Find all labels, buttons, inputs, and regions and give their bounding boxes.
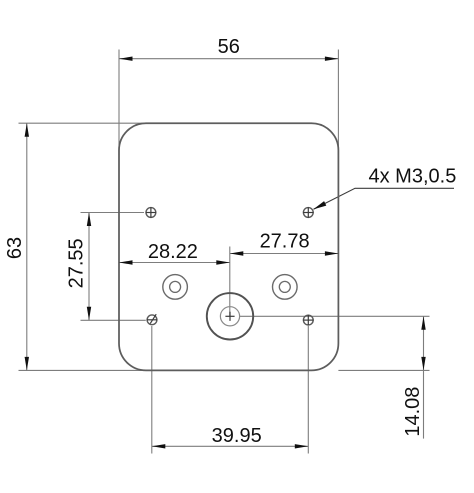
svg-text:56: 56 bbox=[218, 36, 240, 58]
svg-text:63: 63 bbox=[4, 237, 26, 259]
svg-text:4x M3,0.5: 4x M3,0.5 bbox=[369, 165, 457, 187]
svg-text:27.55: 27.55 bbox=[65, 238, 87, 288]
svg-text:39.95: 39.95 bbox=[212, 425, 262, 447]
svg-text:28.22: 28.22 bbox=[148, 241, 198, 263]
svg-text:14.08: 14.08 bbox=[402, 387, 424, 437]
svg-text:27.78: 27.78 bbox=[260, 230, 310, 252]
